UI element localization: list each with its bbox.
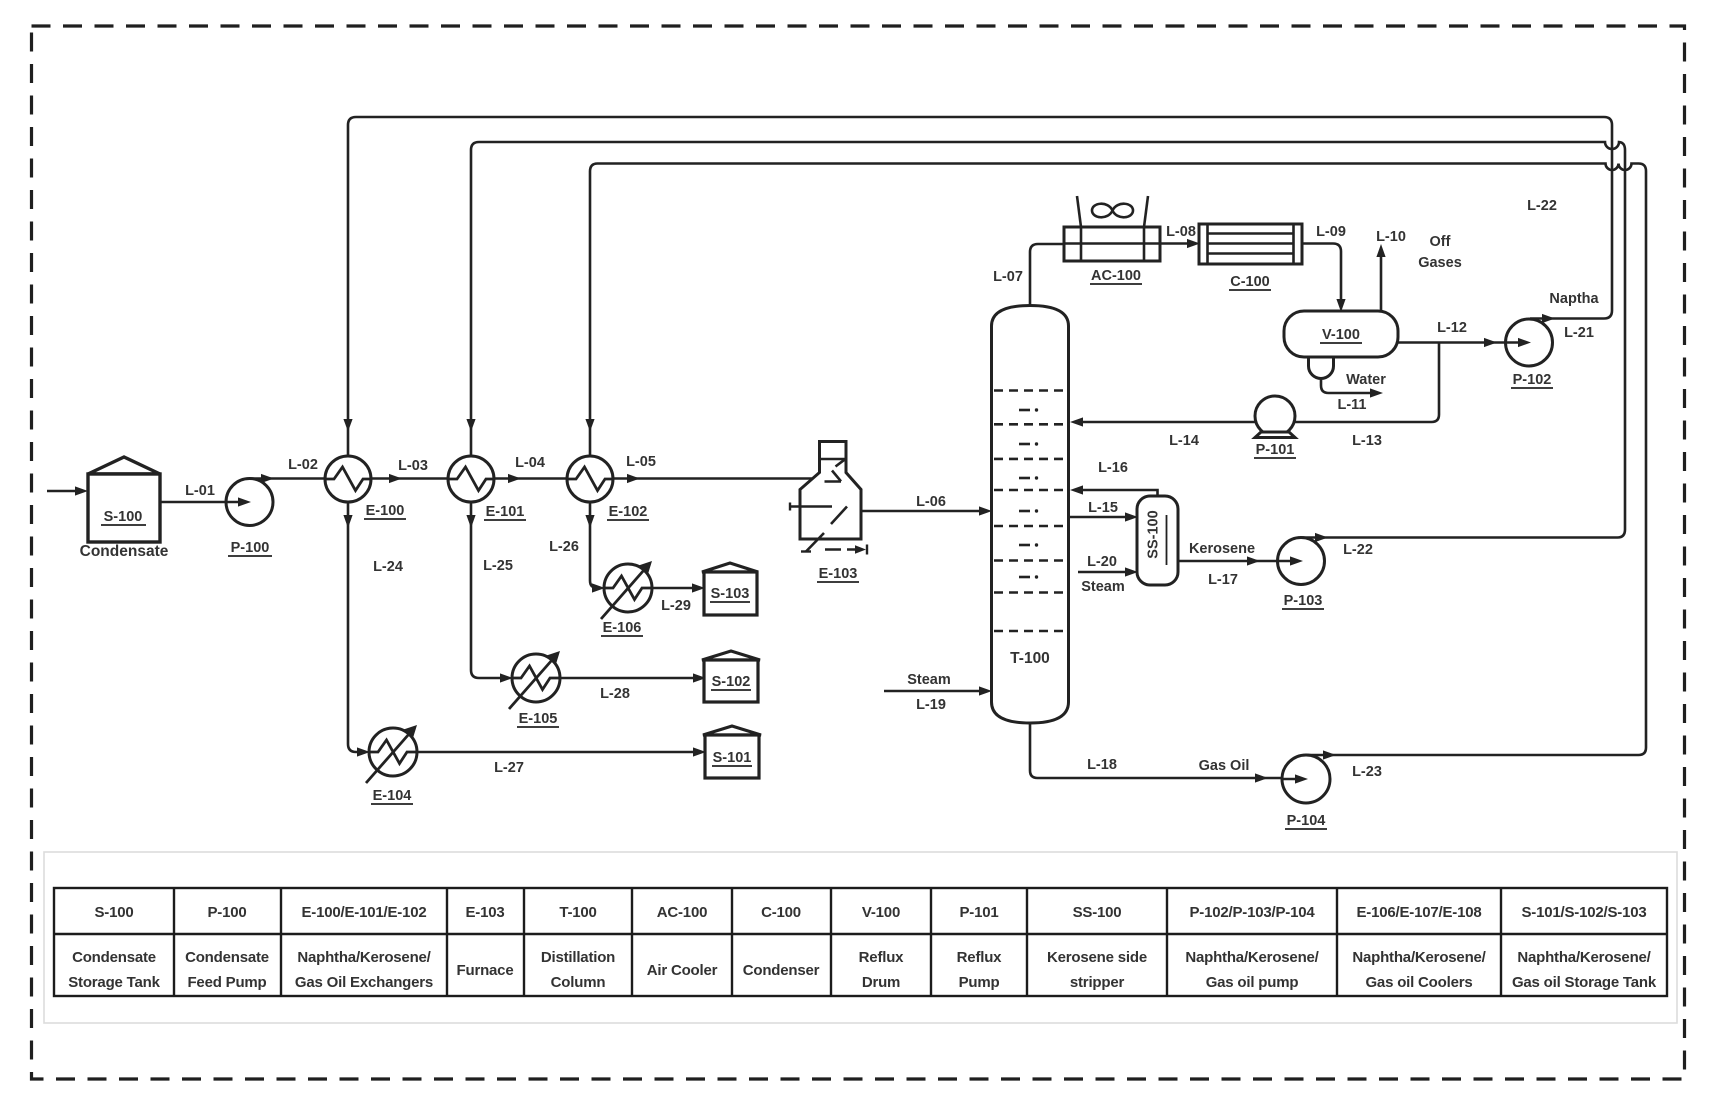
svg-text:SS-100: SS-100 bbox=[1146, 510, 1162, 558]
svg-text:Naphtha/Kerosene/: Naphtha/Kerosene/ bbox=[297, 949, 431, 966]
wire L-18 gas oil to pump P-104 bbox=[1030, 723, 1382, 783]
svg-text:P-100: P-100 bbox=[207, 904, 246, 921]
svg-text:T-100: T-100 bbox=[559, 904, 596, 921]
svg-text:Furnace: Furnace bbox=[457, 962, 514, 979]
wire L-16 stripper vapour return bbox=[1070, 460, 1158, 497]
svg-text:L-11: L-11 bbox=[1337, 397, 1366, 413]
svg-text:AC-100: AC-100 bbox=[657, 904, 708, 921]
svg-text:L-15: L-15 bbox=[1088, 500, 1118, 516]
svg-text:Gas oil Coolers: Gas oil Coolers bbox=[1365, 974, 1472, 991]
air cooler AC-100 bbox=[1064, 196, 1160, 284]
svg-text:L-26: L-26 bbox=[549, 539, 579, 555]
svg-text:V-100: V-100 bbox=[862, 904, 900, 921]
svg-text:S-101: S-101 bbox=[713, 750, 752, 766]
svg-text:E-101: E-101 bbox=[486, 504, 525, 520]
svg-text:Feed Pump: Feed Pump bbox=[187, 974, 266, 991]
svg-text:Reflux: Reflux bbox=[859, 949, 905, 966]
svg-text:L-03: L-03 bbox=[398, 458, 428, 474]
svg-text:L-13: L-13 bbox=[1352, 433, 1382, 449]
svg-text:L-07: L-07 bbox=[993, 269, 1023, 285]
tank S-100 condensate storage bbox=[80, 457, 169, 560]
svg-text:V-100: V-100 bbox=[1322, 327, 1360, 343]
svg-text:Kerosene side: Kerosene side bbox=[1047, 949, 1147, 966]
svg-text:Column: Column bbox=[551, 974, 606, 991]
wire L-27 to tank S-101 bbox=[417, 747, 706, 776]
heat exchanger E-101 bbox=[448, 456, 526, 528]
heat exchanger E-100 bbox=[325, 456, 406, 528]
svg-text:Naptha: Naptha bbox=[1549, 291, 1599, 307]
svg-text:L-18: L-18 bbox=[1087, 757, 1117, 773]
svg-text:L-04: L-04 bbox=[515, 455, 545, 471]
gas oil pump P-104 bbox=[1282, 755, 1330, 829]
svg-text:P-102/P-103/P-104: P-102/P-103/P-104 bbox=[1189, 904, 1315, 921]
tank S-101 bbox=[703, 726, 761, 778]
svg-text:L-22: L-22 bbox=[1527, 198, 1557, 214]
svg-text:P-101: P-101 bbox=[1256, 442, 1295, 458]
svg-text:Gas oil Storage Tank: Gas oil Storage Tank bbox=[1512, 974, 1657, 991]
wire L-29 to tank S-103 bbox=[652, 583, 705, 614]
wire L-03 with label bbox=[371, 458, 450, 483]
svg-text:Steam: Steam bbox=[1081, 579, 1125, 595]
table container panel bbox=[44, 852, 1677, 1023]
wire L-17 kerosene to pump P-103 bbox=[1178, 541, 1373, 588]
svg-text:Drum: Drum bbox=[862, 974, 900, 991]
svg-text:C-100: C-100 bbox=[761, 904, 801, 921]
svg-text:Condenser: Condenser bbox=[743, 962, 820, 979]
cooler E-104 bbox=[366, 725, 417, 804]
svg-text:Gas Oil: Gas Oil bbox=[1199, 758, 1250, 774]
wire L-20 steam to stripper bbox=[1078, 554, 1138, 595]
wire L-07 column overhead to air cooler bbox=[993, 244, 1064, 305]
tank S-103 bbox=[702, 563, 758, 615]
svg-text:L-19: L-19 bbox=[916, 697, 946, 713]
table header row text bbox=[94, 904, 1646, 921]
svg-text:L-02: L-02 bbox=[288, 457, 318, 473]
svg-text:L-10: L-10 bbox=[1376, 229, 1406, 245]
svg-text:Naphtha/Kerosene/: Naphtha/Kerosene/ bbox=[1517, 949, 1651, 966]
cooler E-106 bbox=[601, 561, 652, 636]
table body row text bbox=[68, 949, 1657, 991]
svg-text:Condensate: Condensate bbox=[72, 949, 156, 966]
svg-text:L-28: L-28 bbox=[600, 686, 630, 702]
svg-text:Condensate: Condensate bbox=[80, 543, 169, 560]
svg-text:T-100: T-100 bbox=[1010, 650, 1050, 667]
svg-text:E-100/E-101/E-102: E-100/E-101/E-102 bbox=[301, 904, 426, 921]
wire L-11 water draw bbox=[1321, 372, 1386, 413]
svg-text:E-103: E-103 bbox=[465, 904, 504, 921]
svg-text:E-106/E-107/E-108: E-106/E-107/E-108 bbox=[1356, 904, 1481, 921]
svg-text:P-100: P-100 bbox=[231, 540, 270, 556]
wire naphtha recycle L-21 top line through E-100 down to E-104 bbox=[343, 117, 1612, 757]
svg-text:Pump: Pump bbox=[959, 974, 1000, 991]
svg-text:L-01: L-01 bbox=[185, 483, 215, 499]
svg-text:Water: Water bbox=[1346, 372, 1386, 388]
furnace E-103 bbox=[790, 442, 867, 583]
wire L-05 to furnace with label bbox=[613, 454, 813, 483]
svg-text:C-100: C-100 bbox=[1230, 274, 1270, 290]
svg-text:P-104: P-104 bbox=[1287, 813, 1326, 829]
wire L-08 air cooler to condenser bbox=[1160, 224, 1200, 248]
svg-text:L-23: L-23 bbox=[1352, 764, 1382, 780]
svg-text:E-100: E-100 bbox=[366, 503, 405, 519]
wire L-15 column to side stripper bbox=[1069, 500, 1138, 522]
wire L-12 drum to pump P-102 bbox=[1398, 320, 1527, 347]
svg-text:S-101/S-102/S-103: S-101/S-102/S-103 bbox=[1521, 904, 1646, 921]
svg-text:L-24: L-24 bbox=[373, 559, 403, 575]
distillation column T-100 bbox=[992, 306, 1069, 724]
pump P-100 condensate feed pump bbox=[226, 479, 273, 557]
reflux drum V-100 with boot bbox=[1284, 311, 1398, 379]
svg-text:AC-100: AC-100 bbox=[1091, 268, 1141, 284]
svg-text:P-101: P-101 bbox=[959, 904, 998, 921]
svg-text:L-17: L-17 bbox=[1208, 572, 1238, 588]
svg-text:E-104: E-104 bbox=[373, 788, 412, 804]
svg-text:P-102: P-102 bbox=[1513, 372, 1552, 388]
svg-text:Gas oil pump: Gas oil pump bbox=[1206, 974, 1299, 991]
wire L-19 steam to column bbox=[884, 672, 992, 713]
naphtha pump P-102 bbox=[1506, 291, 1600, 388]
svg-text:Air Cooler: Air Cooler bbox=[647, 962, 718, 979]
svg-text:Gas Oil Exchangers: Gas Oil Exchangers bbox=[295, 974, 433, 991]
wire L-01 with label bbox=[160, 483, 249, 507]
equipment legend table bbox=[54, 888, 1667, 996]
svg-text:Off: Off bbox=[1430, 234, 1451, 250]
svg-text:L-05: L-05 bbox=[626, 454, 656, 470]
svg-text:E-103: E-103 bbox=[819, 566, 858, 582]
wire feed inlet arrow bbox=[47, 486, 88, 495]
svg-text:E-102: E-102 bbox=[609, 504, 648, 520]
cooler E-105 bbox=[509, 651, 560, 727]
wire L-02 pump outlet with label bbox=[249, 457, 327, 483]
svg-text:Naphtha/Kerosene/: Naphtha/Kerosene/ bbox=[1352, 949, 1486, 966]
svg-text:L-29: L-29 bbox=[661, 598, 691, 614]
wire L-13 L-14 reflux line to column bbox=[1070, 343, 1439, 450]
svg-text:Gases: Gases bbox=[1418, 255, 1462, 271]
svg-text:S-100: S-100 bbox=[104, 509, 143, 525]
svg-text:SS-100: SS-100 bbox=[1073, 904, 1122, 921]
svg-text:S-100: S-100 bbox=[94, 904, 133, 921]
svg-text:L-08: L-08 bbox=[1166, 224, 1196, 240]
svg-text:L-27: L-27 bbox=[494, 760, 524, 776]
svg-text:E-105: E-105 bbox=[519, 711, 558, 727]
svg-text:L-09: L-09 bbox=[1316, 224, 1346, 240]
svg-text:L-16: L-16 bbox=[1098, 460, 1128, 476]
tank S-102 bbox=[702, 651, 760, 702]
svg-text:L-21: L-21 bbox=[1564, 325, 1594, 341]
wire L-28 to tank S-102 bbox=[560, 673, 706, 702]
svg-text:Naphtha/Kerosene/: Naphtha/Kerosene/ bbox=[1185, 949, 1319, 966]
svg-text:Reflux: Reflux bbox=[957, 949, 1003, 966]
svg-text:Condensate: Condensate bbox=[185, 949, 269, 966]
wire L-06 furnace to column bbox=[861, 494, 992, 516]
wire L-10 off gases bbox=[1376, 229, 1462, 311]
svg-text:Storage Tank: Storage Tank bbox=[68, 974, 160, 991]
wire L-09 condenser to reflux drum bbox=[1302, 224, 1346, 312]
svg-text:L-14: L-14 bbox=[1169, 433, 1199, 449]
svg-text:L-22: L-22 bbox=[1343, 542, 1373, 558]
svg-text:S-103: S-103 bbox=[711, 586, 750, 602]
svg-text:L-20: L-20 bbox=[1087, 554, 1117, 570]
svg-text:L-25: L-25 bbox=[483, 558, 513, 574]
kerosene pump P-103 bbox=[1278, 538, 1325, 610]
svg-text:P-103: P-103 bbox=[1284, 593, 1323, 609]
heat exchanger E-102 bbox=[567, 456, 649, 528]
svg-text:S-102: S-102 bbox=[712, 674, 751, 690]
wire kerosene recycle L-22 top line through E-101 down to E-105 bbox=[466, 142, 1625, 683]
svg-text:Steam: Steam bbox=[907, 672, 951, 688]
svg-text:L-06: L-06 bbox=[916, 494, 946, 510]
wire gas oil recycle L-23 top line through E-102 down to E-106 bbox=[549, 164, 1646, 760]
reflux pump P-101 bbox=[1254, 396, 1296, 458]
svg-text:E-106: E-106 bbox=[603, 620, 642, 636]
svg-text:L-12: L-12 bbox=[1437, 320, 1467, 336]
svg-text:Kerosene: Kerosene bbox=[1189, 541, 1255, 557]
condenser C-100 bbox=[1199, 224, 1302, 290]
side stripper SS-100 bbox=[1137, 496, 1178, 585]
svg-text:stripper: stripper bbox=[1070, 974, 1125, 991]
wire L-04 with label bbox=[494, 455, 569, 483]
svg-text:Distillation: Distillation bbox=[541, 949, 615, 966]
